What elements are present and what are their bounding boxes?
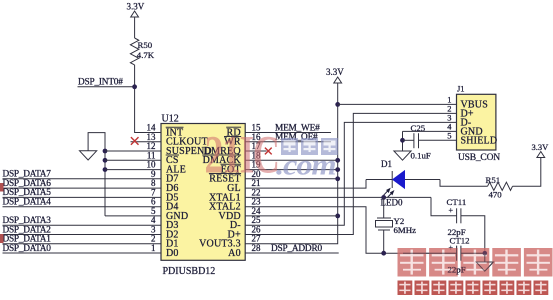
wire VBUS [338,103,457,105]
wire pin 20 RESET [245,178,338,180]
wire D- (pin 25 to J1) [245,122,456,225]
svg-text:USB_CON: USB_CON [458,153,500,163]
wire pin 23 XTAL2 [245,207,456,254]
svg-text:R51: R51 [486,175,501,185]
wire pin 21 GL [245,180,366,189]
wire crystal bottom stem [383,230,385,253]
node DSP_INT0# junction [132,84,137,89]
wire pin 18 DMACK [245,159,338,161]
svg-text:R50: R50 [138,40,153,50]
capacitor CT11 [456,208,458,223]
wire J1 pin5 SHIELD [419,139,457,141]
resistor R50 [130,38,138,65]
capacitor C25 [413,133,415,148]
node ground join [482,251,487,256]
node bus-pin12 [103,149,108,154]
wire C25 left [403,139,414,141]
wire CT11 right drop [461,216,485,253]
wire CT11 feed [431,197,457,215]
no-connect X pin 13 [131,137,139,145]
wire crystal top stem [383,197,385,218]
wire DSP_DATA3 [3,224,162,226]
wire J1 pin4 GND [403,130,457,132]
node rail-pin19 [335,167,340,172]
wire DSP_DATA7 [3,178,162,180]
svg-text:470: 470 [489,190,503,200]
node rail-pin20 [335,176,340,181]
watermark yiditu (bottom right) [398,248,427,277]
resistor R51 [488,182,513,190]
wire DSP_ADDR0 (pin 28) [245,252,339,254]
wire pin 5 GND stub [105,215,161,217]
wire DSP_DATA2 [3,234,162,236]
ground (bottom right) [476,262,493,271]
wire DSP_DATA4 [3,206,162,208]
connector J1 body [457,94,496,150]
svg-text:C25: C25 [411,123,426,133]
wire LED anode run [366,179,440,181]
wire R50 to pin 14 [135,65,161,133]
watermark fragment (left edge b) [0,234,4,243]
node C25 tap [400,138,405,143]
wire pin 19 EOT [245,169,338,171]
svg-text:22pF: 22pF [448,265,466,275]
svg-text:3.3V: 3.3V [532,142,550,152]
svg-text:D1: D1 [381,159,392,169]
node rail-VBUS [335,102,340,107]
watermark fragment (left edge a) [0,183,4,192]
wire DSP_DATA1 [3,243,162,245]
svg-text:U12: U12 [162,114,179,125]
wire MEM_OE# (pin 16) [245,141,331,143]
svg-text:DSP_DATA0: DSP_DATA0 [3,244,52,254]
wire pin 17 DMREQ stub [245,150,266,152]
svg-text:J1: J1 [457,84,465,94]
node rail-pin18 [335,158,340,163]
wire pin 11 CS [105,159,161,161]
wire CT12 right [461,252,485,254]
wire D+ (pin 26 to J1) [245,113,456,234]
diode D1 (LED) [393,171,405,188]
crystal Y2 [377,217,391,219]
svg-text:21IC: 21IC [205,125,279,185]
wire and ground over watermark [403,246,493,275]
wire DSP_DATA0 [3,252,162,254]
svg-text:DSP_DATA4: DSP_DATA4 [3,198,52,208]
svg-text:D0: D0 [166,248,179,259]
wire pin 13 CLKOUT stub [131,141,162,143]
svg-text:PDIUSBD12: PDIUSBD12 [163,266,216,277]
svg-text:SHIELD: SHIELD [461,135,498,146]
wire pin 24 VDD [245,215,338,217]
svg-text:0.1uF: 0.1uF [411,151,431,161]
wire 3.3V rail [245,84,338,244]
node bus-pin10 [103,167,108,172]
node rail-pin24 VDD [335,214,340,219]
wire DSP_DATA5 [3,196,162,198]
IC U12 PDIUSBD12 body [161,124,245,261]
svg-text:.com: .com [276,148,336,182]
wire LED to R51 [440,180,488,187]
no-connect X pin 17 [265,148,272,155]
wire DSP_DATA6 [3,187,162,189]
wire ground stem [484,253,486,262]
svg-text:6MHz: 6MHz [394,225,417,235]
ground (under C25) [394,151,411,160]
svg-text:3.3V: 3.3V [326,67,344,77]
node XTAL1-crystal [381,195,386,200]
ground (left) [80,151,97,160]
wire R51 to 3.3V [513,158,541,186]
wire GND drop [402,131,404,151]
svg-text:DSP_INT0#: DSP_INT0# [78,77,123,87]
svg-text:5: 5 [447,131,451,141]
wire MEM_WE# (pin 15) [245,132,331,134]
wire pin 22 XTAL1 [245,196,431,198]
svg-text:A0: A0 [228,248,241,259]
svg-text:4.7K: 4.7K [137,50,155,60]
wire ground hook [88,133,105,216]
capacitor CT12 [456,246,458,261]
svg-text:DSP_ADDR0: DSP_ADDR0 [271,244,322,254]
svg-text:3.3V: 3.3V [127,2,145,12]
svg-text:1: 1 [151,243,156,253]
wire DSP_INT0# [78,86,135,88]
diode D1 cathode bar [391,171,393,188]
svg-text:+: + [449,206,454,215]
wire pin 10 ALE [105,169,161,171]
node bus-pin11 [103,158,108,163]
LED arrows [384,190,389,195]
node crystal bottom [381,251,386,256]
svg-text:28: 28 [252,243,262,253]
wire pin 12 SUSPEND [105,150,161,152]
wire 3.3V to R50 [134,18,136,39]
